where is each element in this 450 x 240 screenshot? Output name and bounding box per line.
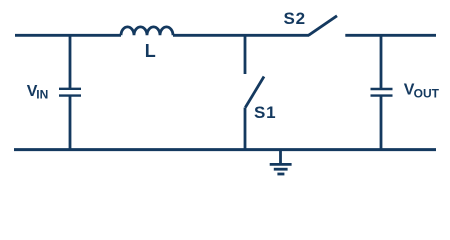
wire top rail right segment [345, 34, 436, 37]
ground [270, 150, 292, 174]
wire S1 branch upper contact [244, 35, 247, 75]
svg-text:L: L [145, 41, 156, 61]
capacitor Cout plates [371, 89, 393, 96]
wire Vout branch upper [380, 35, 383, 90]
wire Vin branch lower [69, 96, 72, 151]
svg-text:VOUT: VOUT [404, 82, 440, 101]
wire Vout branch lower [380, 96, 383, 151]
svg-text:VIN: VIN [27, 83, 48, 102]
wire Vin branch upper [69, 35, 72, 89]
switch S2 blade [309, 16, 338, 36]
wire bottom rail [14, 148, 436, 151]
wire top rail middle segment [173, 34, 309, 37]
capacitor Cin plates [59, 89, 81, 96]
inductor L [121, 27, 173, 35]
svg-text:S2: S2 [284, 9, 306, 28]
svg-text:S1: S1 [254, 103, 276, 122]
wire S1 branch lower [244, 108, 247, 151]
wire top rail left segment [15, 34, 121, 37]
switch S1 blade [245, 77, 264, 108]
